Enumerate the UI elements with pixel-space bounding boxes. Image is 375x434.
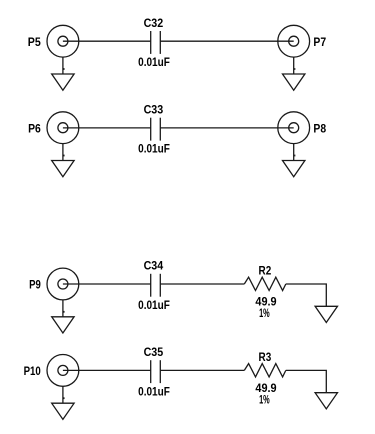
- pin 1 tick P6: [63, 155, 65, 157]
- wire P6 to ground: [62, 144, 64, 161]
- svg-text:R2: R2: [259, 264, 272, 278]
- connector P5: [47, 25, 79, 57]
- wire P6 to C33: [63, 127, 151, 129]
- resistor R2: [244, 277, 285, 290]
- svg-text:P8: P8: [313, 121, 326, 135]
- connector P7: [278, 25, 310, 57]
- pin 1 tick P8: [294, 155, 296, 157]
- wire C32 to P7: [160, 40, 293, 42]
- wire P10 to C35: [63, 369, 151, 371]
- wire C35 to R3: [160, 369, 244, 371]
- connector P9: [47, 268, 79, 300]
- svg-text:1%: 1%: [259, 306, 270, 320]
- svg-text:P5: P5: [28, 35, 41, 49]
- resistor R3: [244, 364, 285, 377]
- wire R2 to ground: [286, 284, 327, 306]
- svg-text:C34: C34: [144, 259, 164, 273]
- wire C33 to P8: [160, 127, 293, 129]
- ground under P5: [52, 74, 74, 90]
- wire P10 to ground: [62, 386, 64, 403]
- svg-text:0.01uF: 0.01uF: [138, 142, 170, 156]
- wire P7 to ground: [293, 57, 295, 74]
- connector P6: [47, 112, 79, 144]
- ground under P8: [283, 161, 305, 177]
- wire P8 to ground: [293, 144, 295, 161]
- svg-text:1%: 1%: [259, 392, 270, 406]
- svg-text:P7: P7: [313, 35, 326, 49]
- connector P8: [278, 112, 310, 144]
- wire R3 to ground: [286, 370, 327, 392]
- wire P9 to ground: [62, 300, 64, 317]
- svg-text:C32: C32: [144, 16, 164, 30]
- svg-text:C33: C33: [144, 102, 164, 116]
- ground right of R2: [315, 306, 337, 322]
- svg-text:P6: P6: [28, 121, 41, 135]
- svg-text:P10: P10: [24, 364, 41, 378]
- capacitor C33: [151, 118, 161, 141]
- wire P9 to C34: [63, 283, 151, 285]
- pin 1 tick P7: [294, 68, 296, 70]
- ground under P10: [52, 403, 74, 419]
- svg-text:0.01uF: 0.01uF: [138, 55, 170, 69]
- connector P10: [47, 355, 79, 387]
- pin 1 tick P10: [63, 397, 65, 399]
- ground under P9: [52, 317, 74, 333]
- ground under P6: [52, 161, 74, 177]
- pin 1 tick P5: [63, 68, 65, 70]
- svg-text:P9: P9: [29, 278, 41, 292]
- capacitor C32: [151, 31, 161, 54]
- svg-text:0.01uF: 0.01uF: [138, 384, 170, 398]
- capacitor C34: [151, 274, 161, 297]
- svg-text:C35: C35: [144, 345, 164, 359]
- wire C34 to R2: [160, 283, 244, 285]
- capacitor C35: [151, 360, 161, 383]
- wire P5 to C32: [63, 40, 151, 42]
- svg-text:R3: R3: [259, 350, 272, 364]
- ground right of R3: [315, 393, 337, 409]
- svg-text:0.01uF: 0.01uF: [138, 298, 170, 312]
- wire P5 to ground: [62, 57, 64, 74]
- ground under P7: [283, 74, 305, 90]
- pin 1 tick P9: [63, 311, 65, 313]
